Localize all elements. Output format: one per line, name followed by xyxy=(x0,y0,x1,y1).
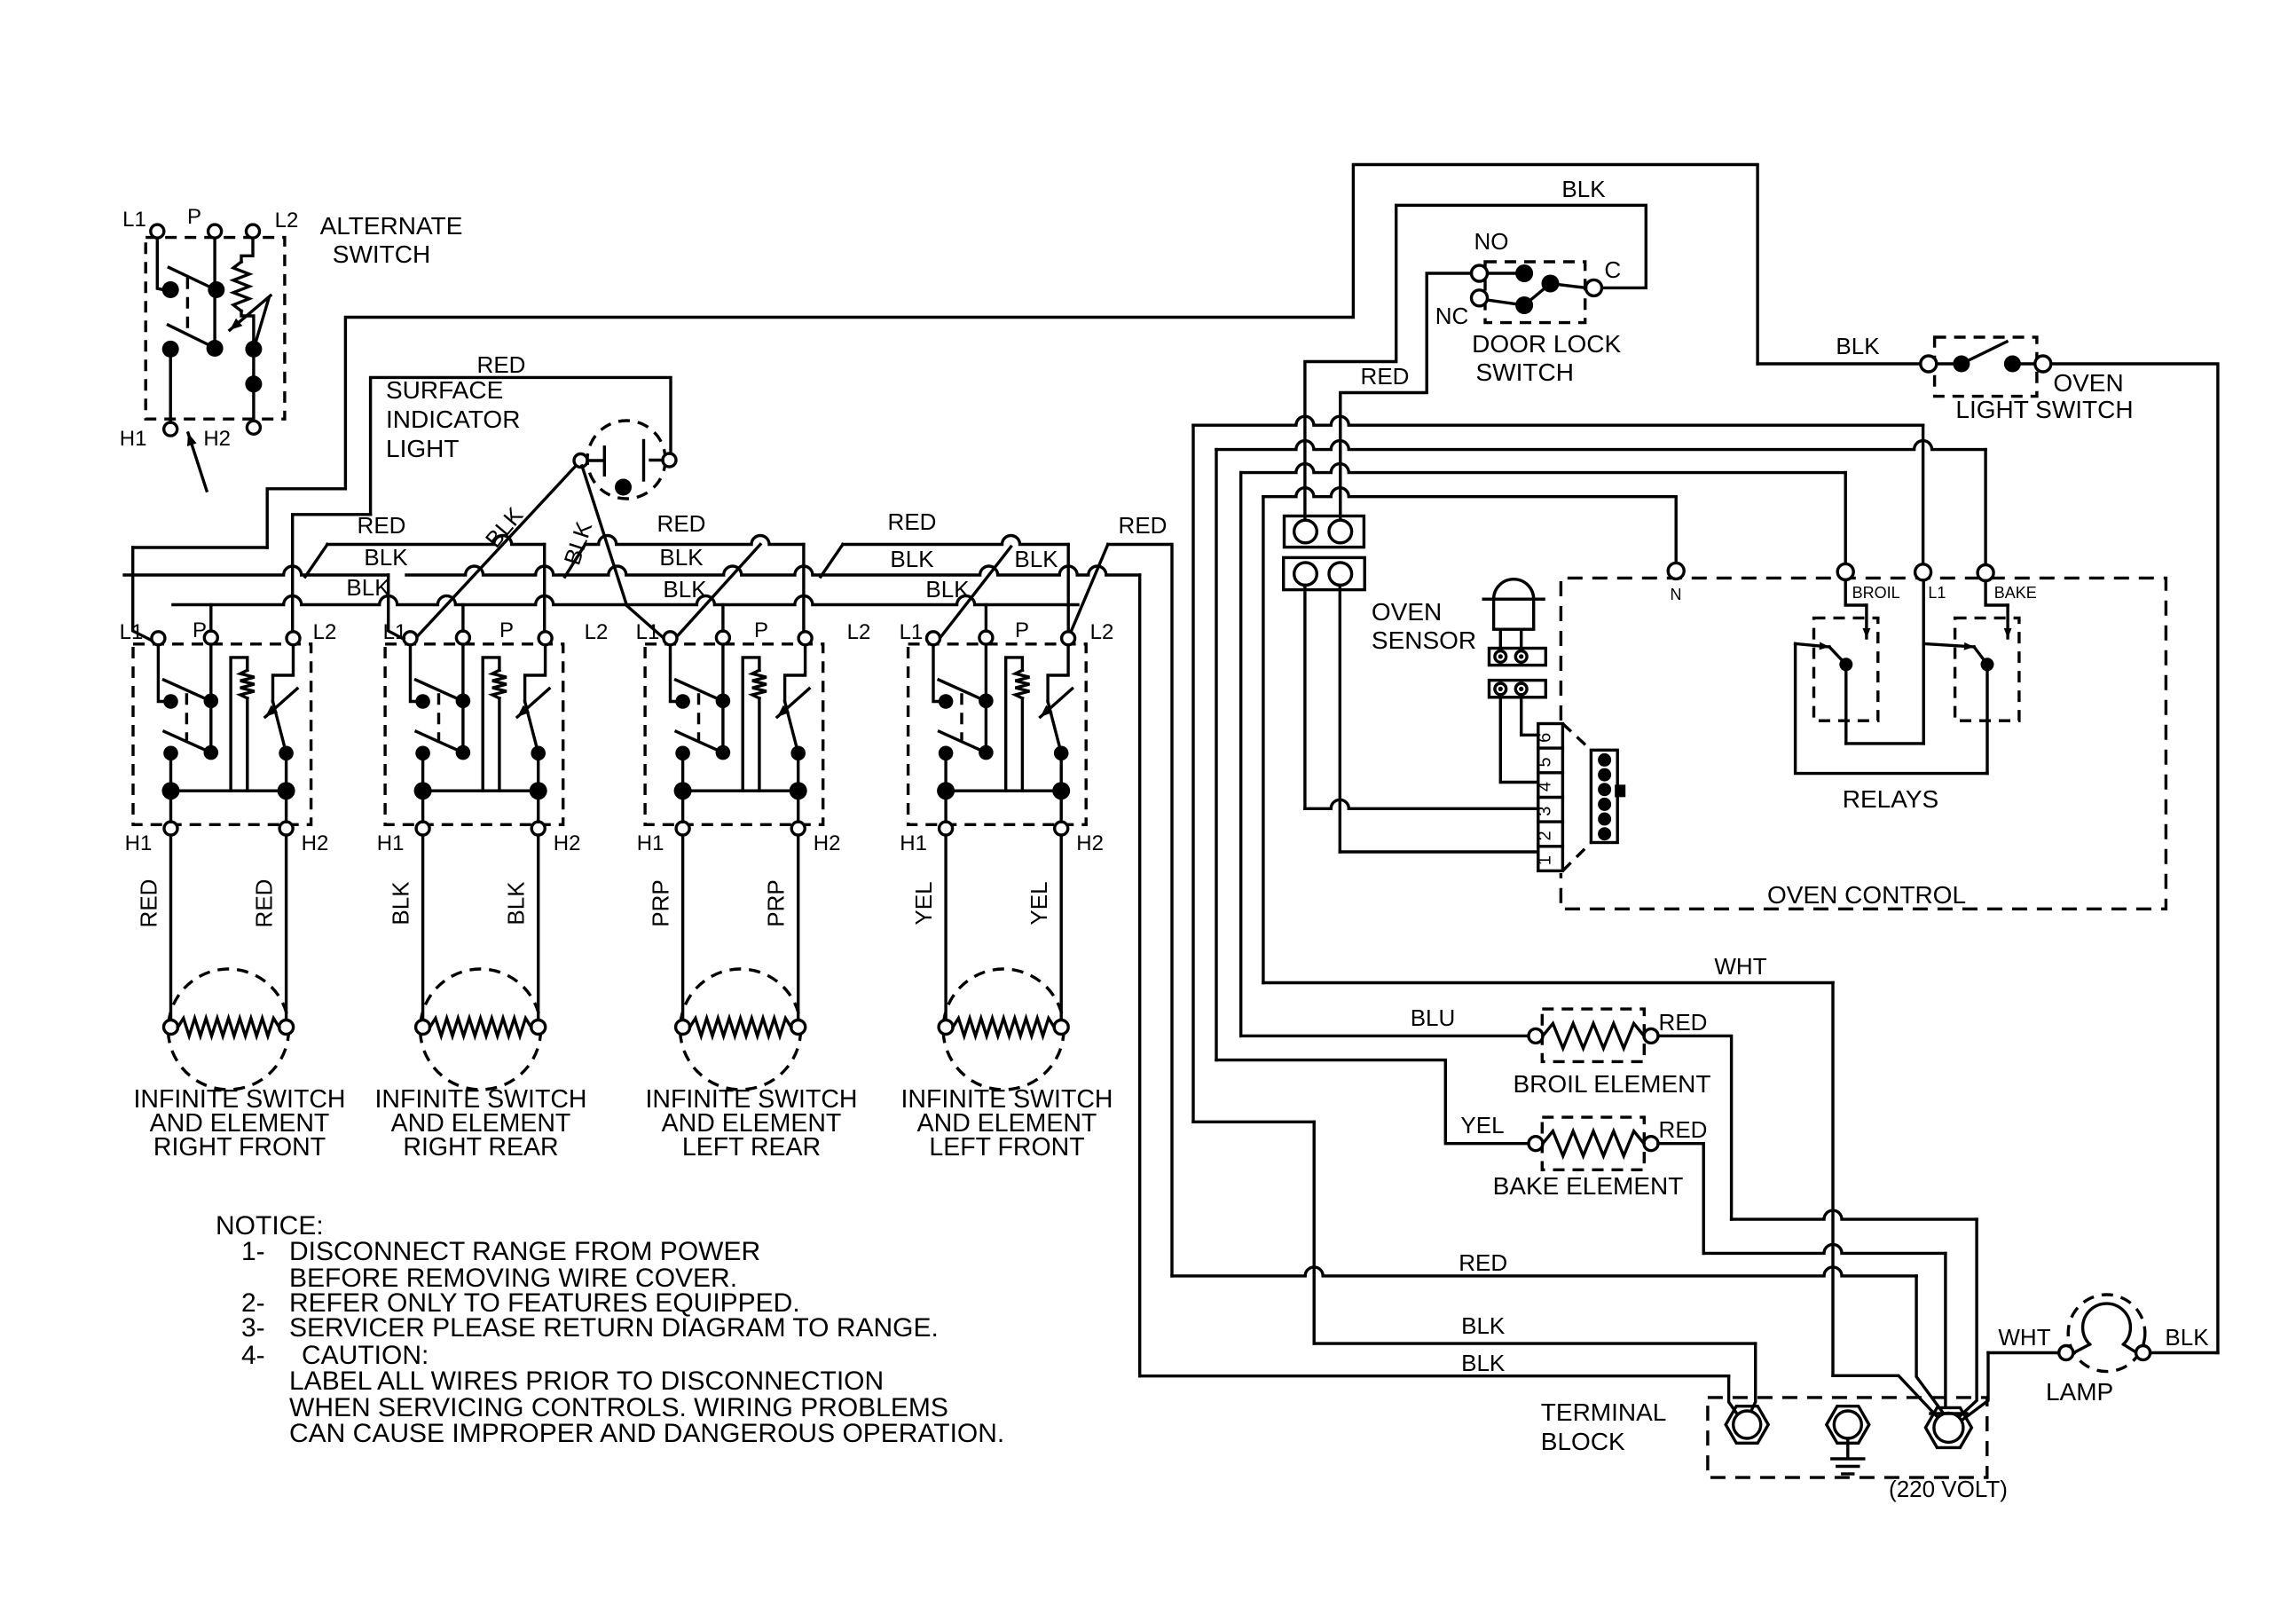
svg-text:YEL: YEL xyxy=(1460,1112,1504,1138)
wire H2 down to element xyxy=(797,835,799,1020)
contact dot upper-left xyxy=(415,694,430,709)
pilot resistor xyxy=(1015,670,1029,698)
svg-text:BLK: BLK xyxy=(1461,1350,1506,1376)
contact dot mid xyxy=(716,745,731,760)
svg-text:WHT: WHT xyxy=(1714,953,1766,980)
terminal L2 xyxy=(798,632,812,645)
svg-text:RED: RED xyxy=(251,879,278,928)
svg-text:YEL: YEL xyxy=(1026,881,1052,925)
wire: light switch to right edge and down to lamp BLK xyxy=(2051,364,2218,1353)
switch blade 2 xyxy=(676,731,719,751)
broil element terminal right xyxy=(1644,1028,1658,1043)
alternate switch (dashed box) xyxy=(145,238,285,420)
terminal stud 1 xyxy=(1726,1406,1768,1444)
svg-text:RED: RED xyxy=(358,512,406,539)
switch blade 1 xyxy=(676,680,719,699)
BROIL terminal xyxy=(1844,473,1846,564)
element (dashed circle) xyxy=(169,969,289,1090)
svg-text:H2: H2 xyxy=(814,831,841,855)
pilot resistor xyxy=(240,670,255,698)
bake relay blade xyxy=(1974,647,1987,665)
ground symbol xyxy=(1846,1438,1849,1458)
pilot resistor leg xyxy=(743,658,759,791)
wire L2 step xyxy=(273,645,294,702)
bake element (dashed box) xyxy=(1542,1117,1644,1170)
wire P contacts xyxy=(209,644,212,752)
pilot resistor xyxy=(492,670,507,698)
terminal block (dashed box) xyxy=(1708,1398,1987,1477)
broil relay fixed contact xyxy=(1796,643,1829,647)
indicator left electrode xyxy=(587,459,604,461)
contact dot upper-mid xyxy=(204,694,219,709)
element resistor xyxy=(953,1019,1054,1036)
terminal P xyxy=(979,631,993,644)
contact dot under L1 (upper) xyxy=(162,281,179,298)
svg-text:LAMP: LAMP xyxy=(2046,1378,2113,1406)
wire junction to H1 xyxy=(681,791,684,822)
svg-text:3: 3 xyxy=(1536,807,1555,816)
wire L1 to contact xyxy=(157,238,163,289)
svg-text:L1: L1 xyxy=(900,620,924,644)
svg-text:BLK: BLK xyxy=(925,576,970,603)
svg-text:OVEN: OVEN xyxy=(1372,598,1442,626)
sensor connector strip 1 xyxy=(1490,649,1546,666)
svg-text:L2: L2 xyxy=(313,620,337,644)
pilot resistor lower leg xyxy=(498,698,500,791)
switch blade 1 xyxy=(939,680,982,699)
svg-text:L2: L2 xyxy=(585,620,609,644)
contact dot upper-mid xyxy=(456,694,471,709)
wire into oven light switch xyxy=(1757,362,1921,365)
wire junction to H2 xyxy=(797,791,799,822)
contact dot upper-mid xyxy=(716,694,731,709)
wire lamp WHT leg to stud3 xyxy=(1962,1353,1988,1421)
broil element terminal left xyxy=(1529,1028,1543,1043)
svg-text:H1: H1 xyxy=(900,831,927,855)
resistor (vertical) in alternate switch xyxy=(233,262,249,311)
thermostat arrow xyxy=(265,689,297,717)
svg-text:ALTERNATE: ALTERNATE xyxy=(320,212,463,240)
BAKE terminal xyxy=(1984,450,1986,564)
bake relay (dashed box) xyxy=(1955,618,2019,721)
svg-text:L1: L1 xyxy=(122,208,146,232)
junction bar xyxy=(946,790,1060,792)
stub P to black bus 2 xyxy=(985,605,987,632)
element terminal right xyxy=(791,1020,806,1035)
pilot resistor leg xyxy=(1006,658,1023,791)
wire: red bus corner down the page xyxy=(1170,545,1173,1276)
svg-text:P: P xyxy=(754,618,768,642)
WHT to terminal stud 3 xyxy=(1833,1375,1937,1416)
run B: to BAKE relay xyxy=(1216,441,1985,450)
infinite switch RIGHT REAR (dashed box) xyxy=(385,644,563,825)
svg-text:SENSOR: SENSOR xyxy=(1372,626,1476,654)
junction dot left xyxy=(937,782,955,799)
contact dot lower-left xyxy=(163,746,178,761)
red bus segment S4 with riser xyxy=(821,545,843,578)
svg-text:5: 5 xyxy=(1536,757,1555,767)
YEL run to bake element xyxy=(1216,1060,1529,1144)
alternate switch terminal H2 xyxy=(247,421,260,434)
terminal P xyxy=(456,631,469,644)
element resistor xyxy=(690,1019,791,1036)
svg-text:BLK: BLK xyxy=(346,574,390,601)
oven light switch (dashed box) xyxy=(1935,337,2037,397)
svg-text:LIGHT SWITCH: LIGHT SWITCH xyxy=(1955,396,2133,423)
svg-text:RED: RED xyxy=(1459,1249,1507,1276)
contact dot upper-left xyxy=(163,694,178,709)
terminal P xyxy=(204,631,217,644)
contact dot mid xyxy=(456,745,471,760)
svg-text:BLK: BLK xyxy=(659,544,704,571)
wire junction to H2 xyxy=(1059,791,1062,822)
light switch right terminal xyxy=(2035,356,2051,372)
svg-text:BLK: BLK xyxy=(890,546,934,572)
pilot resistor lower leg xyxy=(1021,698,1024,791)
wire: bus1 drop to L1 of switch RR xyxy=(389,575,405,640)
plug trapezoid dashed xyxy=(1562,724,1591,751)
junction dot right xyxy=(1052,782,1070,799)
red bus continuation to page-bottom RED drop xyxy=(1108,543,1171,546)
pointer arrow to alternate switch xyxy=(188,433,207,491)
svg-text:H1: H1 xyxy=(377,831,405,855)
element terminal left xyxy=(939,1020,953,1035)
element terminal left xyxy=(676,1020,690,1035)
wire dot D to H1 xyxy=(169,349,171,422)
wire: S1 down to L1 of switch RF xyxy=(133,547,153,642)
bake relay blade leg xyxy=(1985,665,1988,774)
broil element (dashed box) xyxy=(1542,1009,1644,1061)
svg-text:P: P xyxy=(187,205,201,229)
contact dot F xyxy=(245,375,262,392)
switch blade 2 xyxy=(164,731,207,751)
junction dot left xyxy=(414,782,432,799)
wire: bus1 right end down to bottom BLK run xyxy=(1138,575,1141,1376)
broil relay pivot dot xyxy=(1839,658,1852,671)
svg-text:L2: L2 xyxy=(275,209,299,232)
svg-text:L1: L1 xyxy=(383,620,407,644)
svg-text:H1: H1 xyxy=(120,427,147,451)
BLU run to broil element xyxy=(1241,1035,1529,1037)
terminal L2 xyxy=(287,632,300,645)
mechanical link dashed xyxy=(437,693,440,740)
black bus 1 (middle), segment A xyxy=(124,566,389,575)
2-pin connector upper xyxy=(1285,516,1364,547)
oven sensor bulb xyxy=(1494,579,1534,600)
wire contact to junction xyxy=(944,753,947,791)
oven control (dashed outline) xyxy=(1561,578,2166,909)
wire: S4 down into L2 of switch LF xyxy=(1066,545,1069,636)
wire H2 down to element xyxy=(285,835,287,1020)
thermostat blade xyxy=(1048,702,1061,753)
svg-text:DISCONNECT RANGE FROM POWER: DISCONNECT RANGE FROM POWER xyxy=(289,1237,760,1266)
svg-text:L1: L1 xyxy=(120,620,144,644)
infinite switch LEFT REAR (dashed box) xyxy=(645,644,823,825)
long vertical 3 (run C left leg) xyxy=(1239,473,1242,1036)
thermostat blade xyxy=(785,702,798,753)
resistor bottom jog xyxy=(241,311,254,342)
junction dot left xyxy=(162,782,180,799)
light switch lead xyxy=(1937,362,1962,365)
wire: lower connector right pin to plug pin 1 xyxy=(1339,586,1341,853)
contact dot lower-right xyxy=(279,746,294,761)
element resistor xyxy=(178,1019,279,1036)
BLK wire from lamp xyxy=(2151,1351,2218,1354)
wire P contacts xyxy=(985,644,987,752)
light switch blade xyxy=(1962,342,2007,364)
wire: L2 of switch RF up to riser xyxy=(293,515,371,635)
contact dot lower-right xyxy=(1054,746,1069,761)
svg-text:RIGHT FRONT: RIGHT FRONT xyxy=(153,1133,326,1162)
relay bar (broil fixed to bake blade) xyxy=(1796,643,1987,773)
plug body xyxy=(1591,750,1617,842)
thermostat blade xyxy=(525,702,539,753)
svg-text:NO: NO xyxy=(1474,228,1509,255)
wire strip2 right to plug pin 6 xyxy=(1521,697,1538,736)
switch blade 1 xyxy=(164,680,208,699)
stub P to black bus 2 xyxy=(721,605,724,632)
bake relay coil feed xyxy=(1985,581,2008,606)
element terminal left xyxy=(164,1020,178,1035)
contact dot lower-right xyxy=(531,746,546,761)
contact dot lower-left xyxy=(675,746,690,761)
light switch dot left xyxy=(1953,356,1970,373)
wire L1 to contact xyxy=(158,645,163,702)
terminal stud 2 xyxy=(1827,1406,1869,1444)
wire: S3 down into L2 of switch LR xyxy=(802,545,805,636)
svg-text:P: P xyxy=(1015,618,1029,642)
wire: L2-sw1 riser to indicator (T2, RED) xyxy=(371,377,671,514)
wire junction to H2 xyxy=(285,791,287,822)
terminal H2 xyxy=(1055,822,1068,835)
svg-text:1: 1 xyxy=(1536,855,1555,865)
switch blade 2 xyxy=(940,731,982,751)
indicator right electrode xyxy=(650,459,663,461)
svg-text:TERMINAL: TERMINAL xyxy=(1541,1398,1667,1426)
svg-text:PRP: PRP xyxy=(763,879,790,926)
junction dot right xyxy=(278,782,295,799)
svg-text:BLU: BLU xyxy=(1411,1004,1456,1031)
stub P to black bus 2 xyxy=(461,605,464,632)
switch blade 1 xyxy=(169,267,211,288)
wire contact to junction xyxy=(421,753,424,791)
wire P through contacts xyxy=(213,238,216,348)
terminal stud 3 xyxy=(1925,1407,1971,1447)
svg-text:DOOR LOCK: DOOR LOCK xyxy=(1472,330,1621,358)
door lock blade xyxy=(1524,284,1550,306)
mechanical link dashed xyxy=(697,693,700,740)
bake relay pivot dot xyxy=(1981,658,1994,671)
C terminal xyxy=(1586,280,1602,295)
element (dashed circle) xyxy=(421,969,541,1090)
thermostat arrow xyxy=(517,689,549,717)
surface indicator light (dashed circle) xyxy=(587,421,665,499)
thermostat blade xyxy=(254,298,269,349)
svg-text:1-: 1- xyxy=(241,1237,265,1266)
broil relay (dashed box) xyxy=(1814,618,1878,721)
wire: BLK run1 down to terminal stud 1 xyxy=(1750,1343,1756,1414)
bake element resistor xyxy=(1543,1131,1644,1156)
2-pin connector lower xyxy=(1284,557,1365,589)
connector pin circles lower xyxy=(1294,563,1317,586)
svg-text:RED: RED xyxy=(1119,512,1168,539)
lamp stubs xyxy=(2074,1344,2090,1353)
contact dot lower-right xyxy=(790,746,806,761)
svg-text:BLK: BLK xyxy=(364,544,408,571)
bake element terminal left xyxy=(1529,1137,1543,1151)
bake element terminal right xyxy=(1644,1137,1658,1151)
wire contact to junction right xyxy=(1059,753,1062,791)
wire H1 down to element xyxy=(944,835,947,1020)
wire L2 step xyxy=(785,645,806,702)
terminal H1 xyxy=(940,822,953,835)
svg-text:BAKE: BAKE xyxy=(1994,584,2037,602)
svg-text:RED: RED xyxy=(477,351,526,378)
svg-text:L2: L2 xyxy=(847,620,871,644)
terminal L1 xyxy=(152,632,165,645)
svg-text:RED: RED xyxy=(1361,363,1410,390)
wire junction to H1 xyxy=(944,791,947,822)
element terminal right xyxy=(531,1020,546,1035)
switch blade 2 xyxy=(169,325,212,346)
contact dot mid xyxy=(979,745,994,760)
black bus 1 (middle), segment B xyxy=(406,566,1140,575)
wire junction to H1 xyxy=(421,791,424,822)
svg-text:LEFT FRONT: LEFT FRONT xyxy=(929,1133,1084,1162)
svg-text:H2: H2 xyxy=(302,831,329,855)
L1 terminal xyxy=(1922,425,1924,564)
svg-text:PRP: PRP xyxy=(648,879,674,926)
alternate switch terminal L2 xyxy=(247,224,260,238)
mechanical link dashed xyxy=(185,693,188,740)
alternate switch terminal L1 xyxy=(151,224,164,238)
pilot resistor leg xyxy=(483,658,499,791)
svg-text:H2: H2 xyxy=(554,831,581,855)
lamp (dashed circle) xyxy=(2068,1295,2145,1372)
svg-text:BLK: BLK xyxy=(1836,333,1880,359)
broil element resistor xyxy=(1543,1023,1644,1048)
svg-text:BROIL ELEMENT: BROIL ELEMENT xyxy=(1513,1070,1710,1098)
wire H2 down to element xyxy=(537,835,539,1020)
element (dashed circle) xyxy=(680,969,801,1090)
junction bar xyxy=(171,790,286,792)
wire contact to junction xyxy=(169,753,172,791)
bake relay fixed contact xyxy=(1923,643,1974,647)
wire strip2 left to plug pin 4 xyxy=(1500,697,1538,783)
svg-text:L1: L1 xyxy=(636,620,660,644)
infinite switch RIGHT FRONT (dashed box) xyxy=(133,644,311,825)
wire H2 down to element xyxy=(1059,835,1062,1020)
red bus segment S2 with riser xyxy=(305,545,327,578)
terminal H2 xyxy=(791,822,805,835)
svg-text:BLK: BLK xyxy=(1014,546,1058,572)
pilot resistor lower leg xyxy=(758,698,760,791)
svg-text:P: P xyxy=(499,618,514,642)
svg-text:BAKE ELEMENT: BAKE ELEMENT xyxy=(1493,1172,1684,1200)
red bus segment S3 with riser xyxy=(565,545,586,578)
wire L1 to contact xyxy=(411,645,416,702)
lamp filament arc xyxy=(2083,1304,2131,1344)
junction bar xyxy=(683,790,798,792)
run D: to N xyxy=(1263,488,1676,497)
svg-text:INDICATOR: INDICATOR xyxy=(386,406,520,433)
broil relay coil feed xyxy=(1845,579,1867,605)
svg-text:CAN CAUSE IMPROPER AND DANGERO: CAN CAUSE IMPROPER AND DANGEROUS OPERATI… xyxy=(289,1419,1004,1448)
terminal H2 xyxy=(531,822,545,835)
long vertical 1 (run A left leg) xyxy=(1191,425,1194,1122)
svg-text:H1: H1 xyxy=(125,831,153,855)
terminal L1 xyxy=(927,632,940,645)
svg-text:RELAYS: RELAYS xyxy=(1843,785,1938,813)
indicator dot xyxy=(615,479,632,496)
contact dot D under L1 lower xyxy=(162,341,179,358)
svg-text:4: 4 xyxy=(1536,782,1555,792)
svg-text:RED: RED xyxy=(1659,1116,1708,1143)
wire H1 down to element xyxy=(681,835,684,1020)
contact dot C xyxy=(207,340,224,357)
junction dot right xyxy=(530,782,547,799)
wire contact to junction xyxy=(681,753,684,791)
svg-text:3-: 3- xyxy=(241,1313,265,1343)
black bus 2 (lower) xyxy=(173,596,1078,605)
terminal L2 xyxy=(1062,632,1075,645)
svg-text:OVEN: OVEN xyxy=(2053,369,2123,397)
svg-text:BLK: BLK xyxy=(2165,1324,2209,1351)
red bus segment S1 xyxy=(133,546,268,548)
diagonal BLK: indicator to L1 switch RR xyxy=(411,466,577,644)
indicator right terminal xyxy=(663,453,676,467)
wire H1 down to element xyxy=(169,835,172,1020)
wire H1 down to element xyxy=(421,835,424,1020)
terminal L1 xyxy=(664,632,677,645)
broil return wire to stud 3 xyxy=(1658,1036,1732,1219)
wire L1 to contact xyxy=(671,645,676,702)
svg-text:RED: RED xyxy=(657,510,706,537)
junction bar xyxy=(423,790,538,792)
svg-text:P: P xyxy=(193,618,207,642)
svg-text:L1: L1 xyxy=(1928,584,1946,602)
run C: to BROIL relay xyxy=(1241,464,1846,473)
alternate switch terminal H1 xyxy=(164,422,177,436)
wire contact to junction right xyxy=(797,753,799,791)
pilot resistor lower leg xyxy=(246,698,248,791)
light switch dot right xyxy=(2004,356,2021,373)
blade to C xyxy=(1551,284,1586,288)
contact dot on P column (upper) xyxy=(208,281,224,298)
svg-text:LIGHT: LIGHT xyxy=(386,435,459,462)
contact dot upper-left xyxy=(675,694,690,709)
svg-text:2: 2 xyxy=(1536,831,1555,840)
svg-text:BLK: BLK xyxy=(388,881,414,926)
terminal L1 xyxy=(404,632,417,645)
bottom BLK run 2 (from black bus 1) xyxy=(1140,1375,1729,1377)
wire: C of door lock up-over and down to connector left pin (RED) xyxy=(1305,205,1646,525)
infinite switch LEFT FRONT (dashed box) xyxy=(908,644,1087,825)
contact dot mid xyxy=(204,745,219,760)
svg-text:N: N xyxy=(1671,586,1682,603)
terminal H1 xyxy=(164,822,177,835)
diagonal: L2 switch LF up to red continuation xyxy=(1070,545,1108,634)
svg-text:H1: H1 xyxy=(637,831,664,855)
N terminal xyxy=(1674,497,1677,563)
svg-text:C: C xyxy=(1604,256,1621,283)
svg-text:BLK: BLK xyxy=(1561,176,1606,202)
lamp left terminal xyxy=(2059,1346,2073,1360)
pilot resistor leg xyxy=(231,658,248,791)
thermostat blade xyxy=(273,702,287,753)
svg-text:BROIL: BROIL xyxy=(1852,584,1900,602)
wire P contacts xyxy=(461,644,464,752)
